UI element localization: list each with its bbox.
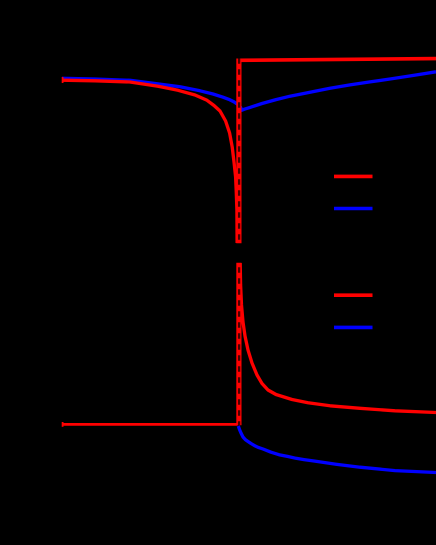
red vertical column lower [236, 263, 241, 426]
red curve upper-left: declines then plunges into vertical line [62, 80, 237, 243]
blue curve lower-right: drops from junction, flattening [238, 426, 436, 473]
legend sample line 4 (blue) [334, 326, 373, 330]
blue curve upper (mu+ DMFT): left branch, kink minimum at vertical line, rising right branch [62, 72, 436, 110]
legend sample line 2 (blue) [334, 207, 373, 211]
start tick of upper curves at x=62 [62, 77, 64, 83]
red line lower-left: flat segment [62, 423, 238, 426]
start tick of lower-left red line [62, 422, 64, 427]
red vertical column upper (step riser merged with curve plunge) [236, 59, 241, 244]
black dashed vertical line (axvline) overlaying the red columns [238, 58, 240, 425]
red step top: horizontal line from vertical to right edge [237, 59, 436, 61]
legend sample line 1 (red) [334, 175, 373, 179]
red curve lower-right: steep drop off vertical line, flattening [240, 263, 436, 413]
legend sample line 3 (red) [334, 293, 373, 297]
